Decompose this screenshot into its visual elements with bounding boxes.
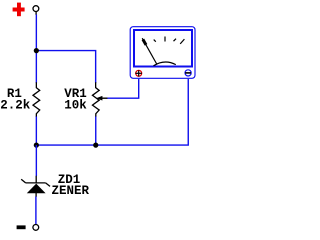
wire: bottom rail junction B to meter - terminal xyxy=(36,79,188,145)
node: top input terminal (open circle) xyxy=(33,6,39,15)
zener diode ZD1 xyxy=(21,176,50,197)
svg-text:10k: 10k xyxy=(64,98,87,112)
wire: R1 bottom to junction B xyxy=(35,117,37,146)
VR1 wiper arrow xyxy=(96,96,108,101)
wire: junction A down to R1 top xyxy=(35,51,37,83)
node: bottom terminal (open circle) xyxy=(33,225,39,231)
meter scale tick 3 xyxy=(174,39,177,42)
meter scale tick 2 xyxy=(164,37,166,42)
wire: top terminal to junction A xyxy=(35,15,37,51)
meter scale tick 1 xyxy=(154,40,156,42)
wire: VR1 wiper to meter + terminal xyxy=(107,79,138,98)
resistor R1 xyxy=(33,82,40,117)
supply plus terminal symbol (red +) xyxy=(13,3,25,17)
wire: VR1 bottom to junction C xyxy=(95,117,97,146)
meter scale tick 4 xyxy=(180,39,184,44)
wire: ZD1 to bottom terminal xyxy=(35,197,37,225)
svg-text:2.2k: 2.2k xyxy=(0,98,31,112)
node A junction dot xyxy=(34,48,39,53)
meter M1 display window xyxy=(134,30,192,67)
wire: junction B down to ZD1 xyxy=(35,145,37,176)
supply minus terminal symbol (black -) xyxy=(17,225,26,229)
meter scale arc xyxy=(154,62,176,66)
svg-text:ZENER: ZENER xyxy=(52,184,90,198)
node C junction dot xyxy=(93,143,98,148)
node B junction dot xyxy=(34,143,39,148)
meter minus terminal pin xyxy=(185,70,191,76)
meter M1 body (outer case) xyxy=(130,27,195,79)
meter needle xyxy=(142,38,157,64)
meter plus terminal pin xyxy=(135,70,142,76)
wire: junction A right and down to VR1 top xyxy=(36,51,95,83)
potentiometer VR1 body xyxy=(92,82,99,117)
